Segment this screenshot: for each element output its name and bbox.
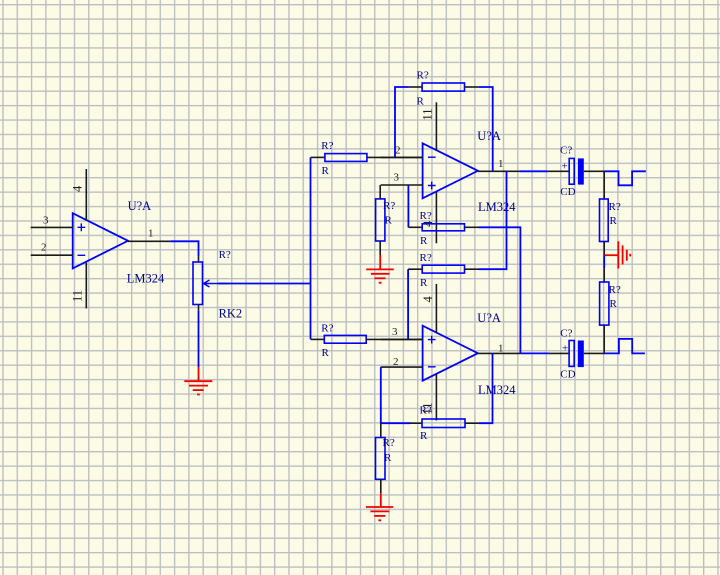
pin 11 power stub (bottom amp) — [435, 374, 437, 420]
resistor R? body (bottom-left) — [324, 335, 366, 343]
pin 1 output stub (top amp) — [478, 170, 520, 172]
resistor left stub — [408, 268, 422, 270]
resistor R? left stub — [311, 156, 325, 158]
svg-text:R: R — [322, 165, 330, 177]
ground symbol (middle, below resistor) — [366, 255, 394, 283]
op-amp plus symbol (left) — [78, 223, 86, 231]
resistor R? body (top feedback) — [422, 83, 464, 91]
resistor right stub to top amp pin 2 — [367, 156, 423, 158]
feedback resistor left stub — [409, 86, 422, 88]
svg-text:R: R — [385, 215, 393, 227]
wire: upper middle resistor right, down to bottom amp output — [479, 227, 521, 353]
pin 2 stub (left amp) — [31, 254, 73, 256]
op-amp plus symbol (top amp) — [428, 182, 436, 190]
svg-text:R?: R? — [321, 140, 333, 152]
resistor left stub — [311, 338, 325, 340]
svg-text:R: R — [420, 277, 428, 289]
svg-text:1: 1 — [498, 342, 504, 354]
ground symbol (left, below RK2) — [184, 367, 212, 395]
svg-text:11: 11 — [421, 108, 435, 120]
resistor bottom stub — [603, 242, 605, 256]
pin 4 power stub (bottom amp) — [435, 284, 437, 333]
svg-text:R: R — [417, 96, 425, 108]
svg-text:U?A: U?A — [477, 129, 501, 143]
pin 11 power stub (left amp) — [85, 262, 87, 308]
ground symbol (right, rotated pointing right) — [604, 241, 630, 268]
resistor right stub — [465, 268, 479, 270]
resistor R? body (right lower) — [600, 282, 609, 325]
resistor R? body (bottom-middle vertical) — [376, 438, 386, 480]
svg-text:R: R — [610, 215, 618, 227]
svg-text:RK2: RK2 — [219, 306, 243, 320]
svg-text:R?: R? — [420, 405, 432, 417]
resistor R? body (bottom feedback) — [422, 419, 465, 428]
op-amp minus symbol (left) — [78, 254, 86, 256]
wire: pot bottom to ground — [198, 310, 200, 367]
capacitor left stub — [548, 170, 570, 172]
op-amp plus symbol (bottom amp) — [428, 336, 436, 344]
feedback resistor right stub — [465, 422, 479, 424]
svg-text:LM324: LM324 — [127, 272, 165, 286]
op-amp minus symbol (bottom amp) — [428, 366, 436, 368]
wire: between right resistors — [603, 255, 605, 268]
op-amp U?A triangle (left) — [73, 213, 128, 268]
resistor bottom stub — [380, 479, 382, 493]
ground symbol (bottom, below resistor) — [366, 493, 393, 520]
resistor R? body (lower middle) — [422, 265, 464, 273]
pin 2 stub (bottom amp) — [381, 366, 423, 368]
svg-text:LM324: LM324 — [478, 383, 516, 397]
wire: lower middle resistor right, up to top amp output — [479, 171, 507, 269]
op-amp minus symbol (top amp) — [428, 156, 436, 158]
pin 1 output stub (bottom amp) — [478, 352, 521, 354]
svg-text:4: 4 — [421, 296, 435, 303]
resistor top stub (from top cap node) — [603, 171, 605, 199]
svg-text:+: + — [562, 343, 568, 355]
wire: feedback resistor right down to output — [478, 87, 492, 171]
resistor right stub — [465, 226, 479, 228]
svg-text:R?: R? — [609, 201, 621, 213]
pin 2 stub (top amp) — [381, 156, 423, 158]
wire: left vertical bus — [310, 157, 312, 339]
wire: pin3 down to resistor (upper middle) — [407, 185, 409, 227]
wire: left amp output to potentiometer top — [170, 241, 198, 256]
resistor right stub to bottom amp pin 3 — [366, 338, 422, 340]
svg-text:R: R — [420, 430, 428, 442]
op-amp U?A triangle (bottom) — [423, 326, 478, 381]
wire: lower middle resistor left, down to bottom amp pin3 — [407, 269, 409, 339]
pin 11 power stub (top amp) — [435, 102, 437, 150]
wire: feedback right up to bottom amp output — [479, 353, 493, 423]
svg-text:R?: R? — [609, 284, 621, 296]
resistor top stub — [379, 185, 381, 199]
resistor top stub — [380, 423, 382, 437]
wire: pot wiper to left bus — [218, 283, 311, 285]
pin 1 output stub (left amp) — [128, 240, 170, 242]
resistor R? body (top-left) — [325, 154, 367, 162]
potentiometer RK2 body — [193, 262, 203, 305]
wire: bottom output jog (right of cap) — [604, 339, 645, 354]
pin 3 stub (bottom amp) — [381, 338, 423, 340]
svg-text:3: 3 — [394, 172, 400, 184]
resistor bottom stub — [379, 241, 381, 255]
svg-text:LM324: LM324 — [478, 200, 516, 214]
capacitor C? left plate (outline) — [569, 341, 574, 367]
wire: pin2 up to feedback resistor (top amp) — [395, 87, 409, 157]
svg-text:2: 2 — [41, 242, 47, 254]
wire: bottom amp output to capacitor — [520, 352, 549, 354]
capacitor C? left plate (outline) — [569, 158, 574, 184]
pin 4 power stub (left amp) — [85, 169, 87, 220]
svg-text:4: 4 — [71, 185, 85, 192]
pin 4 power stub (top amp) — [435, 192, 437, 243]
svg-text:R: R — [384, 452, 392, 464]
svg-text:R?: R? — [219, 249, 231, 261]
svg-text:R: R — [322, 347, 330, 359]
svg-text:C?: C? — [560, 145, 572, 157]
pot top pin stub — [198, 256, 200, 262]
svg-text:R: R — [420, 235, 428, 247]
svg-text:1: 1 — [498, 158, 504, 170]
resistor bottom stub (down to bottom cap node) — [603, 325, 605, 353]
svg-text:U?A: U?A — [477, 311, 501, 325]
feedback resistor left stub — [410, 422, 422, 424]
svg-text:R?: R? — [383, 200, 395, 212]
capacitor right stub — [584, 170, 605, 172]
op-amp U?A triangle (top) — [423, 143, 478, 198]
svg-text:R?: R? — [420, 252, 432, 264]
svg-text:R?: R? — [383, 437, 395, 449]
wire: top output jog (right of cap) — [604, 171, 645, 185]
resistor left stub — [408, 226, 422, 228]
resistor R? body (upper middle) — [422, 224, 464, 231]
svg-text:3: 3 — [43, 215, 49, 227]
svg-text:R?: R? — [420, 210, 432, 222]
capacitor C? right plate (solid) — [578, 158, 584, 184]
svg-text:CD: CD — [560, 186, 575, 198]
capacitor C? right plate (solid) — [578, 341, 584, 368]
svg-text:R?: R? — [321, 322, 333, 334]
wire: top amp output to capacitor — [520, 170, 548, 172]
pot wiper pin black segment — [219, 283, 227, 285]
pot bottom pin stub — [198, 305, 200, 311]
resistor top stub — [603, 268, 605, 282]
svg-text:R?: R? — [417, 70, 429, 82]
pin 3 stub (left amp) — [31, 226, 73, 228]
svg-text:1: 1 — [148, 228, 154, 240]
svg-text:2: 2 — [393, 356, 399, 368]
pot wiper arrow — [204, 280, 219, 287]
svg-text:U?A: U?A — [128, 199, 152, 213]
svg-text:3: 3 — [392, 326, 398, 338]
svg-text:R: R — [610, 298, 618, 310]
pin 3 stub (top amp) — [381, 184, 423, 186]
wire: bottom amp pin2 down and right to feedback resistor — [381, 367, 410, 423]
capacitor right stub — [584, 352, 605, 354]
feedback resistor right stub — [465, 86, 479, 88]
svg-text:C?: C? — [560, 327, 572, 339]
resistor R? body (mid-left vertical) — [376, 199, 385, 241]
capacitor left stub — [549, 352, 569, 354]
svg-text:CD: CD — [560, 369, 575, 381]
svg-text:11: 11 — [71, 290, 85, 302]
svg-text:+: + — [562, 160, 568, 172]
resistor R? body (right upper) — [600, 199, 609, 242]
